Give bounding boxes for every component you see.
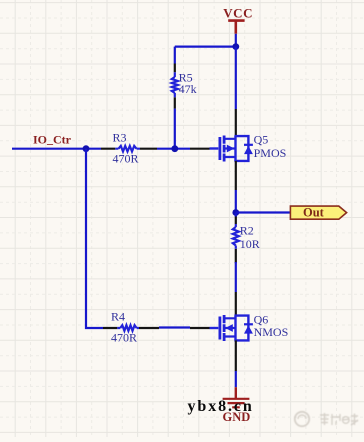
wire R3 to PMOS gate (157, 148, 190, 150)
wire left vertical branch to R4 (86, 149, 103, 328)
svg-text:470R: 470R (113, 151, 139, 165)
svg-text:IO_Ctr: IO_Ctr (33, 132, 72, 146)
wire Out node down to R2 (235, 213, 237, 218)
wire IO_Ctr horizontal left segment (12, 148, 101, 150)
watermark logo icon (295, 412, 309, 426)
wire R2 to NMOS drain (235, 262, 237, 292)
power symbol VCC (223, 6, 253, 34)
svg-text:ybx8.cn: ybx8.cn (188, 398, 254, 415)
svg-text:Out: Out (303, 206, 325, 220)
svg-text:10R: 10R (240, 237, 260, 251)
wire NMOS source to GND (235, 371, 237, 387)
transistor Q6 NMOS (210, 313, 289, 341)
node junction at VCC rail (232, 43, 239, 50)
wire Out node to port (236, 211, 291, 213)
port Out (290, 206, 346, 220)
wire PMOS source to Out node (235, 190, 237, 213)
svg-text:NMOS: NMOS (254, 325, 289, 339)
svg-text:470R: 470R (111, 330, 137, 344)
node junction Out (232, 209, 239, 216)
svg-text:Q5: Q5 (254, 133, 269, 147)
pin NMOS gate (190, 327, 210, 329)
net label IO_Ctr (33, 132, 72, 146)
svg-text:47k: 47k (179, 82, 197, 96)
wire R5 branch upper (174, 47, 176, 64)
wire R4 to NMOS gate (159, 326, 190, 328)
resistor R2 10R (233, 217, 260, 264)
pin PMOS gate (190, 148, 210, 150)
resistor R5 47k (172, 64, 197, 109)
svg-text:R2: R2 (240, 224, 254, 238)
pin NMOS drain (top) (235, 292, 237, 316)
svg-text:R4: R4 (111, 310, 125, 324)
pin NMOS source (bottom) (235, 340, 237, 371)
svg-text:PMOS: PMOS (254, 146, 287, 160)
wire VCC node down to PMOS drain (235, 47, 237, 109)
node junction R3/R5 gate net (171, 145, 178, 152)
wire top rail from R5 branch to VCC node (175, 45, 236, 47)
resistor R3 470R (101, 131, 157, 166)
pin PMOS drain (top) (235, 109, 237, 136)
node junction IO_Ctr branch (83, 145, 90, 152)
svg-text:VCC: VCC (223, 6, 253, 21)
watermark ybx8.cn (188, 398, 254, 415)
watermark logo text (320, 413, 358, 425)
pin PMOS source (bottom) (235, 161, 237, 190)
wire VCC stem to top rail junction (235, 34, 237, 47)
svg-text:R3: R3 (113, 131, 127, 145)
transistor Q5 PMOS (210, 133, 287, 162)
wire R5 branch lower (174, 109, 176, 149)
resistor R4 470R (103, 310, 159, 345)
ground GND (223, 387, 251, 424)
